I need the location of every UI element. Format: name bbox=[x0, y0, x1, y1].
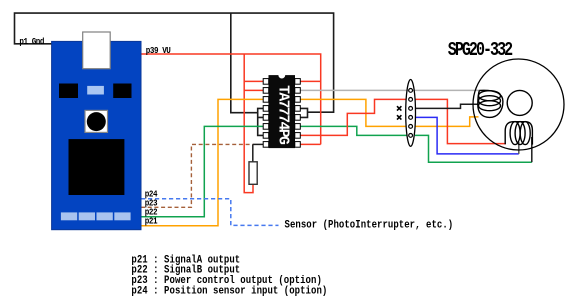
wire red VU supply from p39 bbox=[141, 54, 321, 144]
x mark no-connect pin 3 bbox=[397, 106, 401, 110]
motor shaft circle bbox=[507, 90, 532, 115]
wire red branch down to resistor bottom bbox=[244, 54, 253, 193]
connector ellipse bbox=[406, 80, 416, 147]
board component light blue rect (bootsel) bbox=[87, 86, 104, 95]
wire red stub to pin 1 of U1 bbox=[244, 80, 264, 82]
wire orange p21 SignalA to pin 3 of U1 bbox=[141, 99, 264, 225]
wire red stub pin 9 of U1 bbox=[300, 143, 320, 145]
wire brown dashed p23 power control bbox=[141, 144, 253, 207]
svg-text:TA7774PG: TA7774PG bbox=[274, 85, 290, 145]
wire orange pin 14 of U1 to connector pin 5 bbox=[300, 99, 406, 126]
svg-text:SPG20-332: SPG20-332 bbox=[448, 41, 513, 62]
wire black junction resistor top to pin 8 of U1 bbox=[253, 143, 264, 145]
wire ground bus from p1 Gnd around top bbox=[15, 13, 334, 112]
wire ground branch drop to left bracket bbox=[231, 13, 258, 113]
board component black rect right bbox=[113, 84, 131, 99]
wire blue connector pin 4 to coil B center tap bbox=[415, 117, 519, 153]
wire red stub pin 16 of U1 bbox=[300, 80, 320, 82]
board component black rect left bbox=[59, 84, 78, 99]
board pad 2 bbox=[79, 212, 95, 220]
board pad 3 bbox=[97, 212, 113, 220]
IC U1 TA7774PG body bbox=[269, 75, 296, 148]
wire green p22 SignalB to pin 6 of U1 bbox=[141, 126, 264, 216]
svg-text:p39 VU: p39 VU bbox=[146, 46, 171, 56]
wire red stub to pin 2 of U1 bbox=[244, 89, 264, 91]
IC U1 notch bbox=[278, 72, 285, 79]
wire green pin 11 of U1 to connector pin 6 bbox=[300, 126, 406, 135]
motor coil B (horizontal) bbox=[505, 122, 532, 145]
svg-text:p21: p21 bbox=[145, 217, 158, 227]
wire left ground bracket joining pins 4,5,7 of U1 bbox=[258, 108, 264, 135]
wire right ground bracket joining pins 12,13 of U1 bbox=[300, 108, 307, 117]
connector pin 4 bbox=[409, 116, 413, 120]
svg-text:p24 : Position sensor input (o: p24 : Position sensor input (option) bbox=[131, 285, 327, 297]
motor M1 body circle bbox=[473, 59, 564, 150]
wire black connector pin 3 to coil A center tap bbox=[415, 104, 479, 108]
board button white square bbox=[85, 110, 108, 132]
wire blue dashed p24 sensor input bbox=[141, 199, 279, 226]
wire black resistor top lead bbox=[252, 144, 254, 162]
USB connector on board bbox=[83, 32, 111, 69]
board pad 1 bbox=[61, 212, 77, 220]
svg-text:Sensor (PhotoInterrupter, etc.: Sensor (PhotoInterrupter, etc.) bbox=[285, 219, 454, 231]
connector pin 5 bbox=[409, 125, 413, 129]
wire gray lead coil B center tap bbox=[518, 142, 520, 154]
x mark no-connect pin 4 bbox=[397, 115, 401, 119]
wire black lead coil B right end bbox=[531, 137, 533, 162]
board main chip black square bbox=[69, 139, 125, 195]
wire gray pin 15 of U1 to motor coil A top bbox=[300, 89, 480, 91]
wire orange connector pin 5 to motor coil A bottom bbox=[415, 117, 479, 127]
motor coil A (vertical) bbox=[478, 90, 503, 117]
IC U1 left pins bbox=[263, 79, 269, 148]
IC U1 right pins bbox=[295, 79, 301, 148]
wire red pin 10 of U1 staircase to connector pin 2 bbox=[300, 99, 406, 135]
connector pin 3 bbox=[409, 107, 413, 111]
microcontroller board (Pico) bbox=[52, 41, 141, 229]
connector pin 2 bbox=[409, 98, 413, 102]
board pad 4 bbox=[114, 212, 130, 220]
wire red connector pin 2 to motor coil B left end bbox=[415, 99, 506, 143]
wire green connector pin 6 to motor coil B right lead bbox=[415, 135, 532, 162]
svg-text:p1 Gnd: p1 Gnd bbox=[19, 37, 44, 48]
resistor R1 bbox=[249, 162, 257, 185]
board button black circle bbox=[87, 112, 106, 131]
connector pin 6 bbox=[409, 134, 413, 138]
connector pin 1 bbox=[409, 89, 413, 93]
